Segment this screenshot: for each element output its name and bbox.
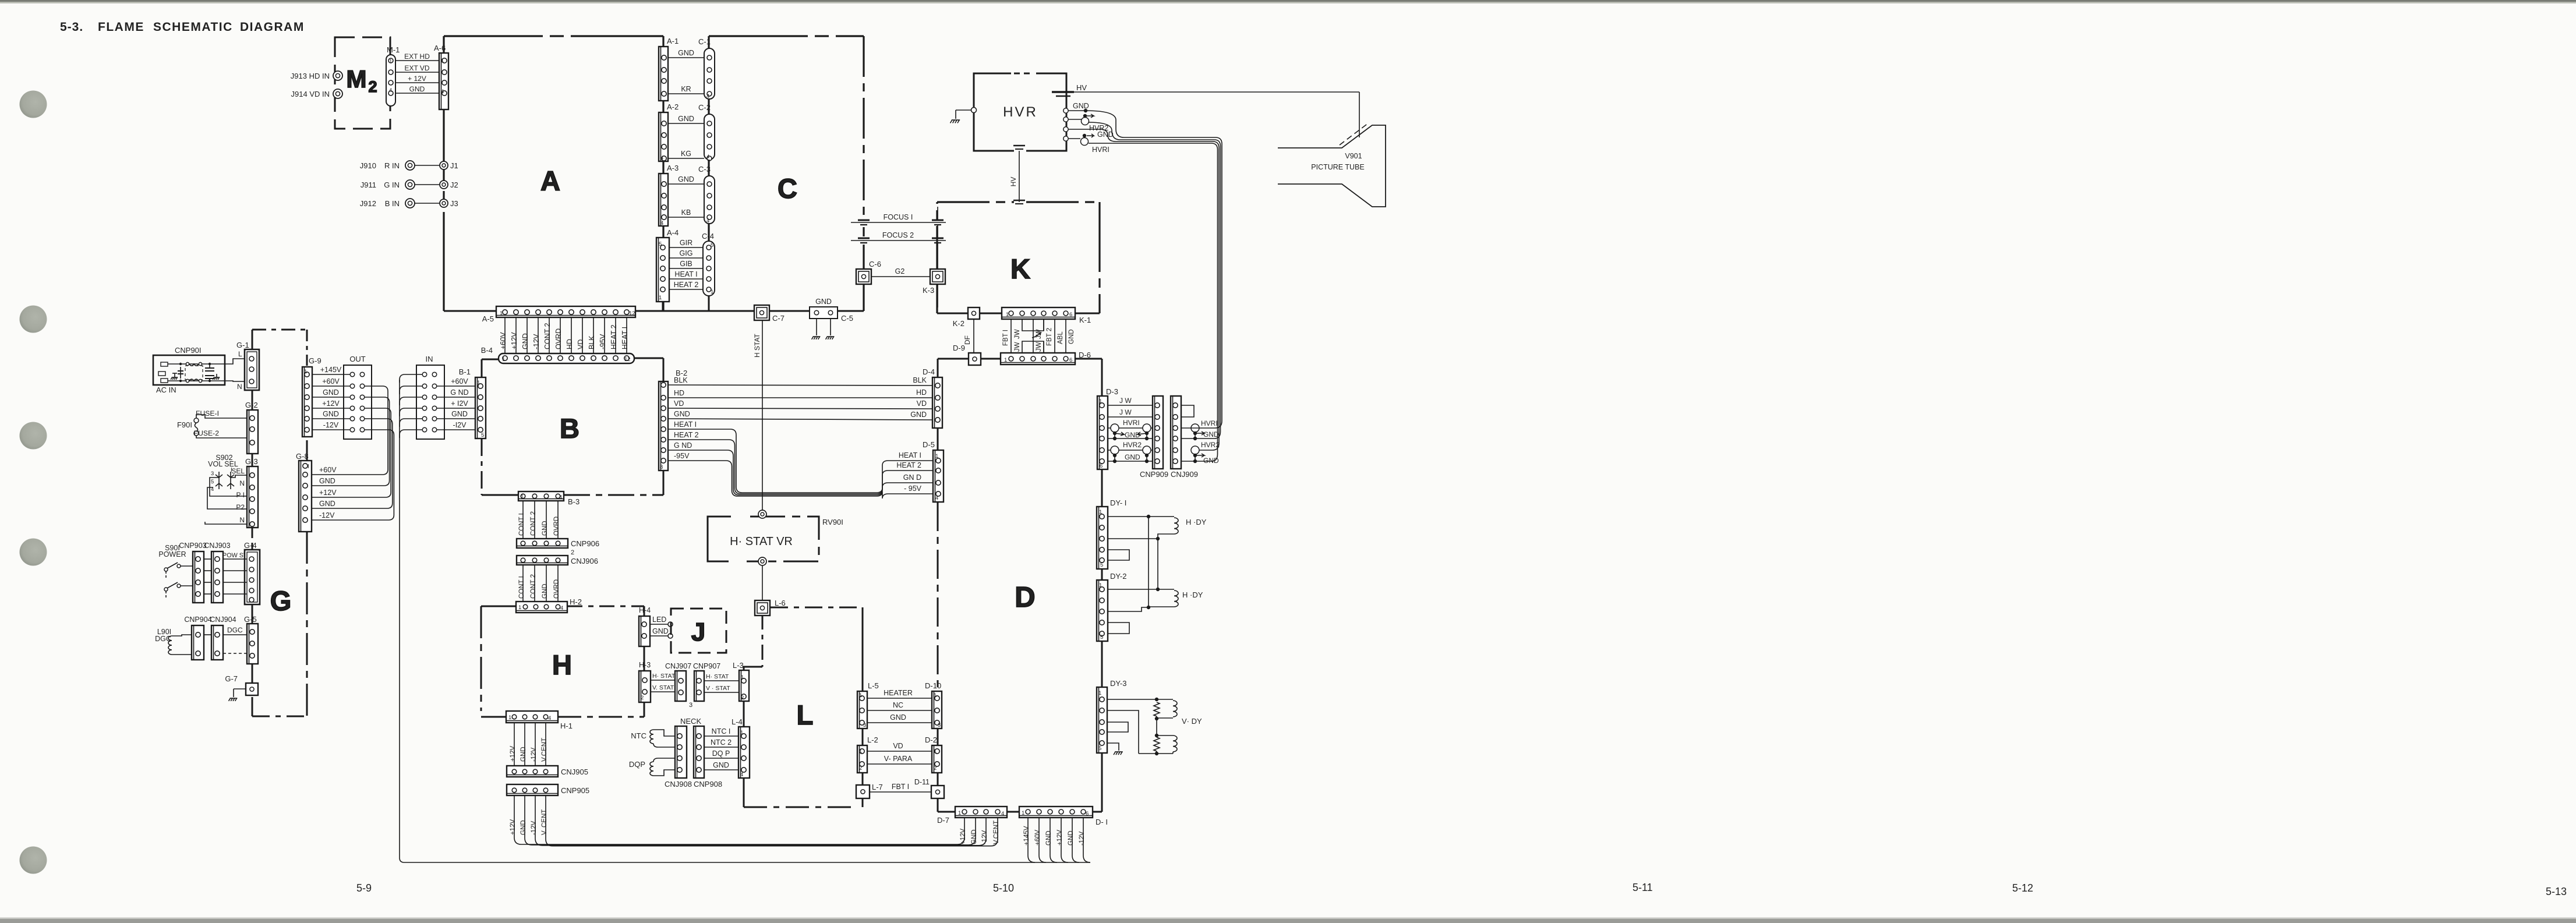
svg-text:N: N bbox=[237, 383, 242, 391]
svg-text:1: 1 bbox=[711, 289, 713, 295]
B-2 labels bbox=[674, 376, 699, 460]
DY-1 horizontal deflection coil H-DY bbox=[1108, 515, 1207, 560]
svg-text:J910: J910 bbox=[360, 161, 376, 170]
wires A-5 to B-4 with rail labels bbox=[499, 317, 629, 353]
svg-text:2: 2 bbox=[571, 549, 574, 556]
svg-text:D-3: D-3 bbox=[1106, 387, 1118, 396]
connector C-3 bbox=[698, 165, 715, 224]
svg-text:1: 1 bbox=[521, 494, 524, 500]
svg-text:NTC 2: NTC 2 bbox=[711, 738, 732, 747]
svg-text:L-5: L-5 bbox=[868, 681, 879, 690]
svg-text:HD: HD bbox=[674, 389, 684, 397]
connector G-8 bbox=[296, 452, 312, 532]
connector C-4 bbox=[702, 232, 715, 296]
svg-text:GND: GND bbox=[674, 410, 690, 418]
svg-text:JW: JW bbox=[1036, 342, 1043, 352]
svg-text:V901: V901 bbox=[1345, 152, 1362, 160]
svg-text:6: 6 bbox=[1086, 811, 1089, 817]
svg-text:1: 1 bbox=[859, 748, 862, 755]
jack J914 VD IN bbox=[291, 89, 342, 98]
svg-text:DGC: DGC bbox=[227, 626, 243, 634]
svg-text:K: K bbox=[1010, 253, 1030, 284]
svg-text:KG: KG bbox=[681, 150, 691, 158]
svg-text:GND: GND bbox=[652, 627, 669, 635]
HVR left pin and ground bbox=[950, 108, 977, 123]
svg-text:HVRI: HVRI bbox=[1201, 419, 1218, 427]
svg-text:V. CENT: V. CENT bbox=[541, 809, 548, 835]
svg-text:4: 4 bbox=[660, 155, 663, 161]
svg-text:+145V: +145V bbox=[320, 366, 342, 374]
svg-text:B-3: B-3 bbox=[568, 497, 579, 506]
svg-text:C-5: C-5 bbox=[841, 314, 853, 323]
wire FBT1 L-7 to D-11 bbox=[870, 783, 931, 792]
connector C-2 bbox=[698, 103, 715, 161]
svg-text:RV90I: RV90I bbox=[822, 518, 843, 526]
wires K-1 to D-6 with FBT1 JW FBT2 ABL GND labels bbox=[1002, 319, 1075, 353]
svg-text:AC IN: AC IN bbox=[156, 386, 176, 394]
connector C-6 bbox=[856, 260, 881, 284]
svg-text:D-9: D-9 bbox=[953, 344, 965, 352]
DY-2 horizontal deflection coil H-DY bbox=[1108, 588, 1203, 634]
svg-text:5: 5 bbox=[659, 241, 662, 247]
connector DY-3 bbox=[1097, 679, 1126, 753]
connector B-1 bbox=[459, 367, 486, 438]
connector A-4 bbox=[656, 228, 679, 302]
svg-text:J: J bbox=[691, 618, 705, 646]
svg-text:HEAT I: HEAT I bbox=[674, 420, 697, 429]
connector L-4 bbox=[732, 717, 750, 778]
connector H-2 bbox=[516, 597, 582, 613]
svg-text:DIAGRAM: DIAGRAM bbox=[240, 20, 305, 34]
svg-text:CNP909: CNP909 bbox=[1140, 470, 1168, 479]
svg-text:FBT 2: FBT 2 bbox=[1046, 328, 1053, 346]
svg-text:12: 12 bbox=[624, 356, 631, 363]
svg-text:L-4: L-4 bbox=[732, 717, 743, 726]
svg-text:HD: HD bbox=[566, 339, 574, 349]
svg-text:HEAT I: HEAT I bbox=[621, 327, 629, 349]
connector B-3 bbox=[518, 491, 579, 506]
svg-text:NC: NC bbox=[893, 701, 903, 709]
wires L-2 to D-2 VD V-PARA bbox=[867, 742, 932, 764]
svg-text:G-1: G-1 bbox=[236, 341, 249, 349]
block B letter bbox=[560, 413, 579, 444]
svg-text:1: 1 bbox=[740, 730, 743, 736]
svg-text:CNP905: CNP905 bbox=[561, 786, 589, 795]
svg-text:L: L bbox=[797, 699, 814, 730]
G-8 rail labels bbox=[319, 466, 337, 519]
svg-text:CONT 2: CONT 2 bbox=[530, 511, 537, 536]
svg-text:JW: JW bbox=[1036, 329, 1043, 339]
svg-text:GND: GND bbox=[542, 583, 549, 599]
svg-text:GND: GND bbox=[713, 761, 729, 769]
wires B-2 to D-5 HEAT1 HEAT2 GND -95V bundle bbox=[668, 429, 933, 498]
D-7 rail labels bbox=[960, 821, 1000, 844]
svg-text:D: D bbox=[1015, 582, 1035, 613]
svg-text:-12V: -12V bbox=[981, 830, 988, 844]
input jacks J910 J911 J912 R/G/B IN bbox=[360, 161, 458, 208]
svg-text:EXT HD: EXT HD bbox=[404, 52, 430, 61]
svg-text:A-3: A-3 bbox=[667, 164, 679, 172]
svg-text:5-10: 5-10 bbox=[993, 882, 1014, 894]
svg-text:CNJ903: CNJ903 bbox=[204, 542, 230, 550]
svg-text:H: H bbox=[552, 649, 572, 680]
svg-text:V · STAT: V · STAT bbox=[706, 685, 730, 692]
svg-text:J912: J912 bbox=[360, 199, 376, 208]
svg-text:4: 4 bbox=[560, 605, 563, 611]
svg-text:+12V: +12V bbox=[319, 489, 337, 497]
wires CNP901 to G-1 L and N bbox=[225, 350, 247, 391]
svg-text:D-11: D-11 bbox=[914, 778, 930, 786]
connector A-3 bbox=[659, 164, 679, 226]
svg-text:J3: J3 bbox=[450, 199, 458, 208]
fuse F901 bbox=[177, 415, 247, 438]
svg-text:3: 3 bbox=[863, 722, 866, 729]
block B outline bbox=[482, 358, 663, 495]
svg-text:N: N bbox=[239, 479, 245, 487]
svg-text:V.CENT: V.CENT bbox=[541, 738, 548, 762]
connector D-1 bbox=[1019, 807, 1108, 826]
svg-text:VD: VD bbox=[893, 742, 903, 750]
svg-text:B-4: B-4 bbox=[481, 346, 493, 355]
svg-text:DY-2: DY-2 bbox=[1110, 572, 1126, 581]
svg-text:DY- I: DY- I bbox=[1110, 498, 1126, 507]
svg-text:-12V: -12V bbox=[1079, 831, 1086, 846]
svg-text:12: 12 bbox=[629, 310, 635, 317]
svg-text:HV: HV bbox=[1076, 83, 1087, 92]
block C outline bbox=[709, 36, 864, 311]
svg-text:DY-3: DY-3 bbox=[1110, 679, 1126, 688]
svg-text:1: 1 bbox=[518, 604, 521, 611]
wires D-3 to CNP909 with JW JW HVR1 GND HVR2 GND symbols bbox=[1108, 397, 1153, 463]
svg-text:H ·DY: H ·DY bbox=[1182, 590, 1203, 599]
wires H-3 to CNJ907 H.STAT V.STAT bbox=[651, 673, 676, 692]
svg-text:CNP906: CNP906 bbox=[571, 539, 599, 548]
svg-text:CNP90I: CNP90I bbox=[175, 346, 202, 355]
svg-text:CNJ905: CNJ905 bbox=[561, 768, 588, 776]
connector CNP909 bbox=[1140, 396, 1168, 479]
svg-text:GND: GND bbox=[815, 298, 832, 306]
DY-3 vertical deflection network V-DY bbox=[1107, 698, 1202, 755]
svg-text:GIB: GIB bbox=[680, 260, 692, 268]
connector H-4 bbox=[639, 606, 651, 646]
svg-text:1: 1 bbox=[659, 295, 662, 301]
svg-text:GN D: GN D bbox=[903, 473, 921, 482]
svg-text:4: 4 bbox=[740, 772, 743, 778]
svg-text:OVRD: OVRD bbox=[553, 517, 560, 536]
svg-text:HVR2: HVR2 bbox=[1123, 441, 1142, 449]
svg-text:GND: GND bbox=[678, 175, 694, 183]
block G outline bbox=[252, 330, 307, 716]
svg-text:EXT VD: EXT VD bbox=[404, 64, 429, 72]
connector K-1 bbox=[1002, 307, 1091, 324]
svg-text:A: A bbox=[540, 165, 560, 196]
svg-text:N: N bbox=[239, 516, 245, 524]
svg-text:GND: GND bbox=[1125, 453, 1140, 461]
svg-text:4: 4 bbox=[935, 495, 938, 501]
svg-text:1: 1 bbox=[477, 380, 480, 386]
svg-text:A-2: A-2 bbox=[667, 102, 679, 111]
svg-text:B-1: B-1 bbox=[459, 367, 471, 376]
svg-text:+12V: +12V bbox=[322, 399, 340, 408]
svg-text:G ND: G ND bbox=[450, 388, 468, 397]
wire C-7 to RV901 bbox=[762, 320, 763, 511]
svg-text:GND: GND bbox=[323, 388, 339, 397]
svg-text:4: 4 bbox=[706, 154, 709, 160]
svg-text:6: 6 bbox=[1069, 357, 1072, 363]
wires OUT to G-8 bundle bbox=[312, 386, 394, 520]
svg-text:A-6: A-6 bbox=[434, 44, 446, 52]
connector D-10 bbox=[925, 681, 942, 729]
svg-text:GND: GND bbox=[542, 521, 549, 536]
svg-text:OVRD: OVRD bbox=[554, 328, 563, 349]
svg-text:CNJ907: CNJ907 bbox=[665, 662, 691, 670]
svg-text:HEAT I: HEAT I bbox=[899, 451, 921, 459]
svg-text:ABL: ABL bbox=[1057, 331, 1064, 344]
connector CNP907 bbox=[693, 662, 720, 701]
connector D-6 bbox=[1001, 351, 1091, 365]
svg-text:4: 4 bbox=[1001, 811, 1004, 817]
connector D-2 bbox=[925, 735, 942, 773]
connector CNJ909 bbox=[1171, 396, 1198, 479]
svg-text:R IN: R IN bbox=[384, 161, 400, 170]
connector L-6 bbox=[755, 599, 786, 616]
svg-text:2: 2 bbox=[641, 695, 644, 701]
svg-text:G-3: G-3 bbox=[245, 457, 258, 466]
wire HV to picture tube bbox=[1359, 92, 1360, 137]
wire RV901 to L-6 bbox=[762, 565, 763, 600]
svg-text:V- PARA: V- PARA bbox=[884, 755, 913, 763]
svg-text:6: 6 bbox=[1069, 312, 1072, 318]
svg-text:D-7: D-7 bbox=[937, 816, 949, 825]
wires B-3 to CNP906 with CONT1 CONT2 GND OVRD labels bbox=[518, 501, 560, 539]
svg-text:GND: GND bbox=[521, 333, 529, 349]
svg-text:M: M bbox=[347, 65, 367, 93]
svg-text:3: 3 bbox=[211, 471, 214, 477]
connector G-7 bbox=[225, 674, 258, 701]
svg-text:1: 1 bbox=[859, 692, 862, 699]
connector CNP903 bbox=[179, 542, 206, 603]
wires CNJ906 to H-2 with CONT1 CONT2 GND OVRD labels bbox=[518, 565, 560, 602]
svg-text:CONT I: CONT I bbox=[518, 576, 525, 599]
connector K-2 bbox=[953, 307, 980, 328]
svg-text:GND: GND bbox=[319, 477, 335, 485]
svg-text:1: 1 bbox=[1022, 810, 1024, 816]
svg-text:OVRD: OVRD bbox=[553, 579, 560, 599]
svg-text:5: 5 bbox=[1100, 562, 1103, 568]
block A outline bbox=[444, 36, 663, 311]
svg-text:GND: GND bbox=[910, 411, 927, 419]
svg-text:1: 1 bbox=[500, 310, 503, 317]
connector H-1 bbox=[506, 711, 573, 730]
connector K-3 bbox=[923, 269, 945, 295]
svg-text:6: 6 bbox=[1100, 463, 1103, 469]
svg-text:+12V: +12V bbox=[960, 828, 967, 844]
svg-text:IN: IN bbox=[426, 355, 433, 363]
svg-text:L-3: L-3 bbox=[733, 661, 744, 670]
svg-text:D-4: D-4 bbox=[923, 367, 935, 376]
svg-text:+12V: +12V bbox=[1056, 829, 1063, 846]
svg-text:-12V: -12V bbox=[532, 334, 540, 349]
svg-text:GND: GND bbox=[890, 713, 906, 722]
svg-text:K-3: K-3 bbox=[923, 286, 934, 295]
HV output feedthrough and label bbox=[1052, 83, 1359, 96]
svg-text:- 95V: - 95V bbox=[904, 485, 922, 493]
svg-text:HV: HV bbox=[1009, 177, 1017, 187]
block K letter bbox=[1010, 253, 1030, 284]
S902 symbol and wiring bbox=[205, 454, 247, 524]
svg-text:DQP: DQP bbox=[629, 760, 645, 769]
svg-text:-95V: -95V bbox=[599, 334, 607, 349]
connector CNP908 bbox=[694, 726, 722, 788]
svg-text:CNJ909: CNJ909 bbox=[1171, 470, 1198, 479]
svg-text:GND: GND bbox=[678, 49, 694, 57]
svg-text:D- I: D- I bbox=[1096, 818, 1108, 826]
svg-text:2: 2 bbox=[741, 695, 744, 701]
svg-text:J2: J2 bbox=[450, 181, 458, 189]
wires D-1 down to loop bus with labels bbox=[1023, 818, 1090, 862]
svg-text:5-12: 5-12 bbox=[2012, 882, 2033, 894]
svg-text:+60V: +60V bbox=[322, 377, 340, 386]
svg-text:H-3: H-3 bbox=[639, 661, 651, 669]
svg-text:CNJ908: CNJ908 bbox=[665, 780, 692, 788]
connector G-2 bbox=[194, 401, 258, 454]
svg-text:C: C bbox=[778, 173, 797, 204]
svg-text:4: 4 bbox=[706, 93, 709, 100]
svg-text:J911: J911 bbox=[361, 181, 376, 189]
svg-text:GND: GND bbox=[678, 115, 694, 123]
connector G-1 bbox=[236, 341, 259, 390]
svg-text:NTC: NTC bbox=[631, 731, 646, 740]
svg-text:1: 1 bbox=[1004, 357, 1007, 363]
svg-text:FLAME: FLAME bbox=[98, 20, 144, 34]
svg-text:KB: KB bbox=[681, 208, 691, 217]
svg-text:V· DY: V· DY bbox=[1182, 717, 1202, 726]
connector C-1 bbox=[698, 37, 715, 99]
connector D-4 bbox=[923, 367, 942, 428]
svg-text:L-7: L-7 bbox=[872, 783, 883, 791]
svg-text:HEATER: HEATER bbox=[884, 689, 913, 697]
svg-text:D-10: D-10 bbox=[925, 681, 941, 690]
svg-text:GND: GND bbox=[1125, 431, 1140, 439]
HVR block bbox=[974, 73, 1066, 151]
connector L-5 bbox=[857, 681, 879, 729]
svg-text:3: 3 bbox=[689, 702, 692, 709]
connector DY-2 bbox=[1097, 572, 1126, 641]
connector CNJ906 bbox=[517, 556, 598, 565]
connector A-1 bbox=[659, 37, 679, 101]
wires IN to left drop bus bbox=[400, 374, 1090, 862]
connector C-7 bbox=[753, 305, 785, 358]
wires A-1 to C-1 bbox=[668, 49, 704, 94]
svg-text:GND: GND bbox=[971, 829, 978, 844]
svg-text:BLK: BLK bbox=[674, 376, 688, 384]
svg-text:1: 1 bbox=[508, 715, 511, 721]
connector G-9 bbox=[302, 356, 321, 437]
connector CNJ905 bbox=[507, 766, 588, 777]
svg-text:SEL: SEL bbox=[231, 467, 245, 475]
svg-text:BLK: BLK bbox=[588, 335, 596, 349]
svg-text:GND: GND bbox=[1073, 102, 1089, 110]
connector CNJ907 bbox=[665, 662, 692, 709]
wire DF K-2 to D-9 bbox=[963, 319, 974, 353]
svg-text:H· STAT: H· STAT bbox=[706, 673, 729, 680]
svg-text:G: G bbox=[270, 585, 292, 616]
svg-text:D-5: D-5 bbox=[923, 440, 935, 449]
svg-text:JW: JW bbox=[1014, 329, 1021, 339]
focus lines FOCUS1 FOCUS2 bbox=[851, 207, 946, 269]
svg-text:D-2: D-2 bbox=[925, 735, 937, 744]
svg-text:+60V: +60V bbox=[1034, 829, 1041, 846]
connector L-3 bbox=[733, 661, 749, 701]
bottom rail of blocks A and C bbox=[444, 310, 864, 312]
svg-text:V.CENT: V.CENT bbox=[993, 821, 1000, 844]
svg-text:G-4: G-4 bbox=[244, 541, 257, 550]
svg-text:C-6: C-6 bbox=[869, 260, 881, 268]
svg-text:CNJ904: CNJ904 bbox=[210, 616, 236, 624]
block D outline bbox=[938, 359, 1102, 812]
svg-text:5: 5 bbox=[1098, 745, 1101, 752]
wires CNP907 to L-3 H.STAT V.STAT bbox=[704, 673, 739, 692]
svg-text:P I: P I bbox=[236, 491, 245, 499]
svg-text:VD: VD bbox=[674, 399, 684, 408]
svg-text:HVR2: HVR2 bbox=[1201, 441, 1220, 449]
svg-text:H ·DY: H ·DY bbox=[1186, 518, 1207, 526]
svg-text:H STAT: H STAT bbox=[753, 333, 761, 358]
svg-text:GIR: GIR bbox=[680, 239, 692, 247]
svg-text:K-2: K-2 bbox=[953, 319, 964, 328]
connector A-2 bbox=[659, 102, 679, 161]
svg-text:J914 VD IN: J914 VD IN bbox=[291, 90, 330, 98]
svg-text:HEAT 2: HEAT 2 bbox=[896, 461, 921, 469]
svg-text:HEAT 2: HEAT 2 bbox=[674, 431, 699, 439]
svg-text:G-7: G-7 bbox=[225, 674, 238, 683]
svg-text:I: I bbox=[231, 467, 232, 473]
svg-text:2: 2 bbox=[934, 765, 937, 772]
svg-text:I: I bbox=[308, 464, 309, 470]
block C letter bbox=[778, 173, 797, 204]
wires CNP908 to L-4 NTC1 NTC2 DQP GND bbox=[704, 727, 738, 770]
svg-text:4: 4 bbox=[706, 218, 709, 224]
svg-text:KR: KR bbox=[681, 85, 691, 93]
svg-text:1: 1 bbox=[1006, 312, 1009, 318]
svg-text:FBT I: FBT I bbox=[892, 783, 909, 791]
connector G-5 bbox=[204, 615, 258, 664]
svg-text:+ 12V: + 12V bbox=[408, 75, 426, 83]
svg-text:+60V: +60V bbox=[451, 377, 468, 386]
svg-text:1: 1 bbox=[1099, 398, 1102, 405]
svg-text:CONT 2: CONT 2 bbox=[543, 323, 552, 349]
block L outline bbox=[744, 607, 863, 807]
svg-text:1: 1 bbox=[389, 58, 392, 65]
block K outline bbox=[937, 202, 1100, 313]
svg-text:F90I: F90I bbox=[177, 420, 192, 429]
svg-text:OUT: OUT bbox=[349, 355, 366, 363]
RV901 H-STAT VR box bbox=[708, 510, 843, 565]
svg-text:H· STAT VR: H· STAT VR bbox=[730, 535, 793, 548]
L901 DGC coil bbox=[155, 628, 192, 655]
svg-text:FOCUS I: FOCUS I bbox=[884, 213, 913, 221]
connector DY-1 bbox=[1097, 498, 1126, 569]
svg-text:+145V: +145V bbox=[1023, 826, 1030, 846]
svg-text:HEAT 2: HEAT 2 bbox=[610, 324, 618, 349]
svg-text:+60V: +60V bbox=[319, 466, 337, 474]
svg-text:G IN: G IN bbox=[384, 181, 400, 189]
svg-text:5-9: 5-9 bbox=[356, 882, 372, 894]
wires CNP905 down to bottom bus with labels bbox=[510, 795, 998, 846]
svg-text:8: 8 bbox=[660, 464, 663, 471]
svg-text:G-8: G-8 bbox=[296, 452, 309, 461]
svg-text:JW: JW bbox=[1014, 342, 1021, 352]
